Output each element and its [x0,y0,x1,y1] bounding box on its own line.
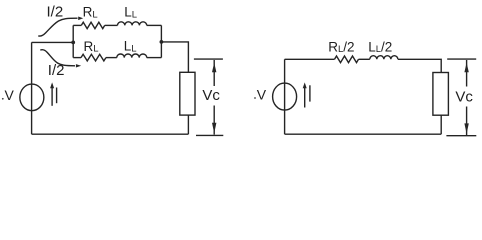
junction dot node A [71,41,75,45]
load resistor circuit 1 [180,72,195,115]
label I (source 2) drawn bar [309,85,311,101]
wire below load [187,115,189,134]
svg-text:RL: RL [84,39,99,55]
wire between R and L [359,58,370,60]
resistor RL/2 [335,56,359,63]
svg-text:I/2: I/2 [47,3,64,20]
svg-text:LL: LL [124,39,137,55]
current arrow I (source 2) [303,82,307,107]
current source V1 circle [20,84,44,111]
junction dot node B [160,40,164,44]
inductor LL/2 [370,56,398,60]
wire merge vertical (node B) [160,25,162,57]
wire top rail to resistor [285,58,335,60]
wire bottom rail circuit 2 [285,133,442,135]
wire split vertical (node A) [72,25,74,57]
wire top rail to load [398,59,441,72]
svg-text:LL: LL [124,5,137,21]
wire top branch out [147,24,162,26]
wire bottom rail circuit 1 [32,133,189,135]
svg-text:RL: RL [83,5,98,21]
wire top branch middle [105,24,118,26]
wire bottom branch lead-in [73,57,81,59]
current arrow I/2 top branch [38,17,83,37]
voltage arrow VC circuit 2 [446,59,476,136]
svg-text:RL/2: RL/2 [328,39,354,55]
svg-text:LL/2: LL/2 [368,39,392,55]
wire left-side (circuit 1) [31,42,33,134]
resistor RL bottom branch [81,54,106,61]
wire below load circuit 2 [440,115,442,134]
inductor LL top branch [118,22,147,26]
load resistor circuit 2 [433,73,449,116]
resistor RL top branch [81,22,104,28]
wire bottom branch out [147,57,162,59]
stray dot before V2 [254,97,256,99]
wire left-side (circuit 2) [284,59,286,134]
voltage arrow VC circuit 1 [194,59,223,135]
stray dot before V1 [2,98,4,100]
wire bottom branch middle [106,57,117,59]
wire feed to split node [32,41,74,43]
current arrow I/2 bottom branch [40,50,81,68]
label I (source 1) drawn bar [56,88,58,104]
wire top branch lead-in [73,24,81,26]
svg-text:V: V [257,87,267,103]
inductor LL bottom branch [117,54,147,58]
current source V2 circle [273,83,297,110]
svg-text:Vc: Vc [455,89,473,106]
svg-text:Vc: Vc [202,87,220,104]
current arrow I (source 1) [50,82,54,105]
svg-text:V: V [5,87,15,103]
svg-text:I/2: I/2 [48,62,65,79]
wire output to load [161,42,188,72]
